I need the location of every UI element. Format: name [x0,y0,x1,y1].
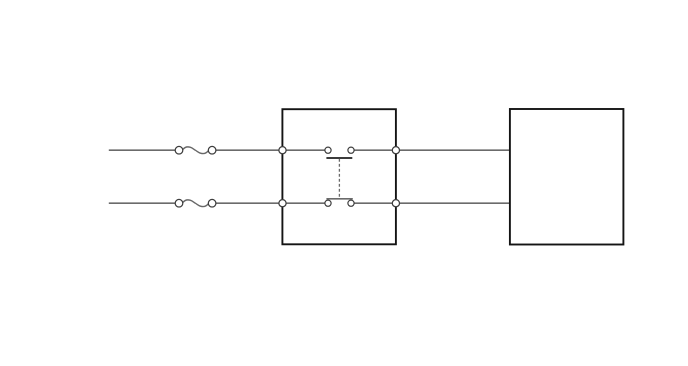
fuse F1 left terminal circle [175,146,183,154]
terminal at switch box left edge, wire L2 [279,200,286,207]
contact K1 fixed contact right [348,147,354,153]
contact K1 fixed contact left [325,147,331,153]
contact K2 bridge bar [326,198,352,200]
terminal at switch box right edge, wire L2 [392,200,399,207]
contact K2 fixed contact right [348,200,354,206]
contact K2 fixed contact left [325,200,331,206]
fuse F1 wavy element [183,147,208,154]
contact K1 bridge bar [326,157,352,159]
wire L1 from switch to load box [353,149,510,151]
wire L2 inside switch box, left stub [283,202,327,204]
fuse F1 right terminal circle [208,146,216,154]
terminal at switch box right edge, wire L1 [392,147,399,154]
wire L2 left segment [109,202,179,204]
wire L1 left segment [109,149,179,151]
mechanical link dashed line [338,159,340,199]
wire L1 inside switch box, left stub [283,149,327,151]
switch enclosure box S1 [282,109,396,244]
fuse F2 right terminal circle [208,199,216,207]
terminal at switch box left edge, wire L1 [279,147,286,154]
wire L2 segment after fuse [212,202,283,204]
fuse F2 left terminal circle [175,199,183,207]
fuse F2 wavy element [183,200,208,207]
wire L1 segment after fuse [212,149,283,151]
wire L2 from switch to load box [353,202,510,204]
load box U1 [510,109,624,245]
